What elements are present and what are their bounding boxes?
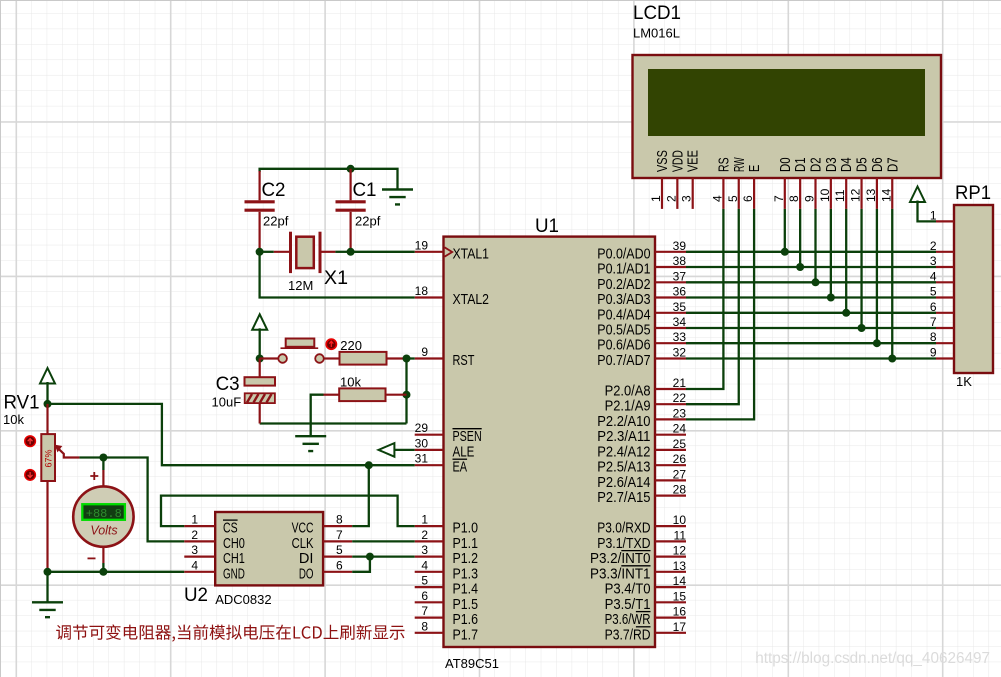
wire LCD RW to P2.1 xyxy=(686,209,739,404)
LCD1 pin 1 (VSS) stub xyxy=(661,178,663,209)
junction D6/P0.6 xyxy=(873,339,881,347)
junction 10k right xyxy=(403,391,411,399)
resistor 10k right pin xyxy=(386,394,407,396)
svg-text:RV1: RV1 xyxy=(4,393,40,414)
svg-text:22: 22 xyxy=(673,391,687,405)
svg-text:1: 1 xyxy=(649,195,663,202)
svg-text:EA: EA xyxy=(453,460,468,476)
svg-text:P0.6/AD6: P0.6/AD6 xyxy=(597,338,650,354)
svg-text:39: 39 xyxy=(673,239,687,253)
svg-text:P3.1/TXD: P3.1/TXD xyxy=(597,536,650,552)
svg-text:CH0: CH0 xyxy=(223,536,245,552)
wire LCD D5 vertical xyxy=(860,209,862,328)
wire voltmeter top xyxy=(102,458,104,471)
U1 P3.7/RD overline xyxy=(636,626,651,628)
U1 pin 3 (P1.2) stub xyxy=(415,555,444,557)
svg-text:VEE: VEE xyxy=(686,150,702,172)
svg-text:P0.0/AD0: P0.0/AD0 xyxy=(597,246,650,262)
wire LCD E to P2.2 xyxy=(686,209,754,420)
voltmeter plus mark xyxy=(90,472,98,480)
svg-text:DO: DO xyxy=(299,566,314,582)
wire CLK to P1.1 xyxy=(352,540,415,542)
svg-text:5: 5 xyxy=(336,543,343,557)
wire wiper to CH0 xyxy=(79,458,184,542)
resistor 10k left pin xyxy=(324,394,340,396)
wire LCD D3 vertical xyxy=(830,209,832,298)
svg-text:D3: D3 xyxy=(824,157,840,172)
ground (crystal) xyxy=(382,190,413,205)
svg-text:23: 23 xyxy=(673,406,687,420)
LCD1 pin 7 (D0) stub xyxy=(784,178,786,209)
LCD1 pin 4 (RS) stub xyxy=(722,178,724,209)
svg-text:D0: D0 xyxy=(778,157,794,172)
U1 XTAL1 clock mark xyxy=(445,247,453,256)
svg-text:DI: DI xyxy=(299,551,314,567)
LCD1 pin 2 (VDD) stub xyxy=(676,178,678,209)
U1 pin 5 (P1.4) stub xyxy=(415,586,444,588)
svg-text:RP1: RP1 xyxy=(955,183,991,204)
svg-text:P2.3/A11: P2.3/A11 xyxy=(597,429,650,445)
LCD1 pin 14 (D7) stub xyxy=(891,178,893,209)
voltmeter top pin xyxy=(102,470,104,487)
svg-text:8: 8 xyxy=(421,619,428,633)
wire C2 to XTAL2 xyxy=(260,252,415,298)
U1 pin 31 (EA) stub xyxy=(415,464,444,466)
wire LCD D0 vertical xyxy=(784,209,786,252)
svg-text:10: 10 xyxy=(818,188,832,202)
svg-text:6: 6 xyxy=(336,558,343,572)
U1 pin 24 (P2.3/A11) stub xyxy=(655,434,686,436)
switch contact right xyxy=(315,354,324,363)
svg-text:P3.2/INT0: P3.2/INT0 xyxy=(590,551,651,567)
switch pin left xyxy=(260,357,279,359)
svg-text:37: 37 xyxy=(673,269,687,283)
svg-text:3: 3 xyxy=(680,195,694,202)
wire XTAL1 row xyxy=(351,251,415,253)
RP1 pin 6 stub xyxy=(936,312,954,314)
U1 pin 6 (P1.5) stub xyxy=(415,601,444,603)
junction RV1 top xyxy=(44,400,52,408)
wire P0.3 bus row xyxy=(686,296,936,298)
U1 pin 26 (P2.5/A13) stub xyxy=(655,464,686,466)
wire P0.1 bus row xyxy=(686,266,936,268)
wire 10k to ground xyxy=(311,395,324,437)
LCD display LCD1 xyxy=(633,55,942,178)
wire ground net xyxy=(48,571,185,573)
U1 pin 1 (P1.0) stub xyxy=(415,525,444,527)
switch button bar xyxy=(286,339,315,347)
svg-text:RW: RW xyxy=(732,157,748,172)
RP1 pin 7 stub xyxy=(936,327,954,329)
LCD1 pin 10 (D3) stub xyxy=(830,178,832,209)
svg-text:38: 38 xyxy=(673,254,687,268)
U2 pin 8 (VCC) stub xyxy=(323,525,352,527)
svg-text:P2.1/A9: P2.1/A9 xyxy=(605,399,651,415)
LCD1 pin 11 (D4) stub xyxy=(845,178,847,209)
switch contact left xyxy=(278,354,287,363)
svg-text:6: 6 xyxy=(741,195,755,202)
svg-text:LCD1: LCD1 xyxy=(633,3,681,24)
svg-text:4: 4 xyxy=(710,195,724,202)
voltmeter display xyxy=(82,504,125,520)
capacitor C3 top pin xyxy=(259,359,261,378)
wire CS to P1.0 xyxy=(161,496,415,526)
junction C1/XTAL1 xyxy=(347,248,355,256)
U1 pin 2 (P1.1) stub xyxy=(415,540,444,542)
junction C2/XTAL1 node xyxy=(256,248,264,256)
svg-text:P2.2/A10: P2.2/A10 xyxy=(597,414,650,430)
svg-text:ALE: ALE xyxy=(453,444,475,460)
U1 pin 39 (P0.0/AD0) stub xyxy=(655,251,686,253)
svg-text:VCC: VCC xyxy=(292,521,314,537)
junction D0/P0.0 xyxy=(781,248,789,256)
U1 pin 29 (PSEN) stub xyxy=(415,434,444,436)
wire LCD D4 vertical xyxy=(845,209,847,313)
svg-text:26: 26 xyxy=(673,452,687,466)
svg-text:9: 9 xyxy=(803,195,817,202)
U1 pin 32 (P0.7/AD7) stub xyxy=(655,357,686,359)
svg-text:P1.7: P1.7 xyxy=(453,627,479,643)
svg-text:36: 36 xyxy=(673,285,687,299)
svg-text:P0.2/AD2: P0.2/AD2 xyxy=(597,277,650,293)
svg-text:P1.3: P1.3 xyxy=(453,566,479,582)
svg-text:CH1: CH1 xyxy=(223,551,245,567)
junction wiper/voltmeter xyxy=(99,454,107,462)
U2 pin 6 (DO) stub xyxy=(323,571,352,573)
svg-text:31: 31 xyxy=(415,452,429,466)
U1 pin 16 (P3.6/WR) stub xyxy=(655,616,686,618)
svg-text:P2.7/A15: P2.7/A15 xyxy=(597,490,650,506)
crystal X1 right electrode xyxy=(319,232,322,273)
LCD1 pin 12 (D5) stub xyxy=(860,178,862,209)
junction RV1 bottom xyxy=(44,568,52,576)
svg-text:D7: D7 xyxy=(885,157,901,172)
svg-text:VDD: VDD xyxy=(670,150,686,172)
wire RV1 to ground symbol xyxy=(46,571,48,602)
U1 pin 4 (P1.3) stub xyxy=(415,571,444,573)
power terminal VCC (RV1) xyxy=(40,368,55,384)
wire LCD D1 vertical xyxy=(799,209,801,267)
power terminal VCC (RP1) xyxy=(910,187,925,203)
U1 pin 18 (XTAL2) stub xyxy=(415,296,444,298)
svg-text:24: 24 xyxy=(673,422,687,436)
svg-text:13: 13 xyxy=(864,188,878,202)
switch actuator button xyxy=(326,339,336,349)
wire P0.2 bus row xyxy=(686,281,936,283)
svg-text:8: 8 xyxy=(787,195,801,202)
voltmeter minus mark xyxy=(88,557,96,559)
ground (reset) xyxy=(295,436,326,451)
wire C2-C1-ground top net xyxy=(260,169,398,190)
switch bar underline xyxy=(281,347,319,349)
svg-text:LM016L: LM016L xyxy=(633,26,680,41)
LCD1 screen xyxy=(648,69,925,136)
potentiometer RV1 body xyxy=(41,434,55,481)
svg-text:P2.4/A12: P2.4/A12 xyxy=(597,444,650,460)
wire RV1/EA VCC net xyxy=(48,404,415,465)
svg-text:34: 34 xyxy=(673,315,687,329)
wire LCD D2 vertical xyxy=(814,209,816,282)
U1 pin 21 (P2.0/A8) stub xyxy=(655,388,686,390)
svg-text:P0.3/AD3: P0.3/AD3 xyxy=(597,292,650,308)
junction D1/P0.1 xyxy=(796,263,804,271)
RP1 pin 8 stub xyxy=(936,342,954,344)
svg-text:P0.4/AD4: P0.4/AD4 xyxy=(597,307,650,323)
junction reset VCC node xyxy=(256,355,264,363)
svg-text:U2: U2 xyxy=(184,585,208,606)
wire P0.6 bus row xyxy=(686,342,936,344)
resistor R 10k body xyxy=(339,388,385,401)
svg-text:17: 17 xyxy=(673,620,687,634)
svg-text:8: 8 xyxy=(336,513,343,527)
svg-text:3: 3 xyxy=(191,543,198,557)
svg-text:P0.5/AD5: P0.5/AD5 xyxy=(597,323,650,339)
svg-text:7: 7 xyxy=(421,604,428,618)
svg-text:Volts: Volts xyxy=(90,524,117,538)
U1 EA overline xyxy=(453,458,468,460)
svg-text:D5: D5 xyxy=(855,157,871,172)
junction D4/P0.4 xyxy=(842,309,850,317)
crystal X1 body xyxy=(296,237,314,268)
svg-text:AT89C51: AT89C51 xyxy=(445,656,499,671)
svg-text:RST: RST xyxy=(453,353,475,369)
svg-text:E: E xyxy=(747,164,763,172)
wire RST node to pin9 xyxy=(407,357,415,359)
svg-text:12: 12 xyxy=(673,544,687,558)
svg-text:P3.0/RXD: P3.0/RXD xyxy=(597,521,650,537)
svg-text:25: 25 xyxy=(673,437,687,451)
ALE arrow head xyxy=(379,443,395,457)
svg-text:1: 1 xyxy=(191,513,198,527)
svg-text:ADC0832: ADC0832 xyxy=(215,592,271,607)
resistor 220 right pin xyxy=(387,357,407,359)
U1 pin 15 (P3.5/T1) stub xyxy=(655,601,686,603)
U1 pin 9 (RST) stub xyxy=(415,357,444,359)
wire LCD D7 vertical xyxy=(891,209,893,359)
wire X1 to C1 node xyxy=(335,251,350,253)
svg-text:35: 35 xyxy=(673,300,687,314)
svg-text:6: 6 xyxy=(421,589,428,603)
U1 pin 28 (P2.7/A15) stub xyxy=(655,495,686,497)
LCD1 pin 6 (E) stub xyxy=(753,178,755,209)
resistor pack RP1 xyxy=(954,205,993,373)
U1 pin 38 (P0.1/AD1) stub xyxy=(655,266,686,268)
LCD1 pin 9 (D2) stub xyxy=(814,178,816,209)
svg-text:XTAL1: XTAL1 xyxy=(453,246,490,262)
wire XTAL1 node xyxy=(260,251,274,253)
svg-text:P2.5/A13: P2.5/A13 xyxy=(597,460,650,476)
LCD1 pin 3 (VEE) stub xyxy=(692,178,694,209)
wire RST vertical xyxy=(405,359,407,424)
U1 pin 36 (P0.3/AD3) stub xyxy=(655,296,686,298)
U1 P3.6/WR overline xyxy=(636,611,651,613)
RP1 pin 9 stub xyxy=(936,357,954,359)
svg-text:67%: 67% xyxy=(43,449,53,467)
junction D7/P0.7 xyxy=(888,355,896,363)
ground (RV1) xyxy=(32,602,63,617)
wire DO to DI xyxy=(352,557,370,572)
svg-text:9: 9 xyxy=(421,345,428,359)
svg-text:P3.6/WR: P3.6/WR xyxy=(605,612,651,628)
svg-text:14: 14 xyxy=(673,574,687,588)
svg-text:11: 11 xyxy=(674,528,687,542)
svg-text:P1.6: P1.6 xyxy=(453,612,479,628)
junction D2/P0.2 xyxy=(812,278,820,286)
svg-text:P1.0: P1.0 xyxy=(453,521,479,537)
wire P0.7 bus row xyxy=(686,357,936,359)
svg-text:P3.7/RD: P3.7/RD xyxy=(605,627,651,643)
svg-text:15: 15 xyxy=(673,589,687,603)
svg-text:D4: D4 xyxy=(839,157,855,172)
RV1 up button xyxy=(25,436,36,447)
U1 pin 33 (P0.6/AD6) stub xyxy=(655,342,686,344)
svg-text:CLK: CLK xyxy=(292,536,314,552)
svg-text:P2.0/A8: P2.0/A8 xyxy=(605,384,651,400)
svg-text:22pf: 22pf xyxy=(263,214,289,229)
svg-text:P3.5/T1: P3.5/T1 xyxy=(605,597,651,613)
svg-text:P3.4/T0: P3.4/T0 xyxy=(605,582,651,598)
svg-text:2: 2 xyxy=(664,195,678,202)
capacitor C2 bottom pin xyxy=(259,212,261,252)
svg-text:5: 5 xyxy=(726,195,740,202)
svg-text:11: 11 xyxy=(833,189,847,202)
U2 CS overline xyxy=(223,519,238,521)
U1 pin 37 (P0.2/AD2) stub xyxy=(655,281,686,283)
microcontroller U1 body xyxy=(444,237,656,647)
capacitor C2 plates xyxy=(245,202,275,210)
LCD1 pin 5 (RW) stub xyxy=(738,178,740,209)
RP1 pin 1 stub xyxy=(936,220,954,222)
wire P0.4 bus row xyxy=(686,312,936,314)
U2 pin 3 (CH1) stub xyxy=(184,555,215,557)
U1 pin 8 (P1.7) stub xyxy=(415,632,444,634)
svg-text:13: 13 xyxy=(673,559,687,573)
U2 pin 2 (CH0) stub xyxy=(184,540,215,542)
U1 pin 10 (P3.0/RXD) stub xyxy=(655,525,686,527)
LCD1 pin 13 (D6) stub xyxy=(876,178,878,209)
svg-text:P3.3/INT1: P3.3/INT1 xyxy=(590,566,651,582)
U1 P3.2/INT0 overline xyxy=(621,550,650,552)
U1 pin 17 (P3.7/RD) stub xyxy=(655,632,686,634)
svg-text:28: 28 xyxy=(673,483,687,497)
svg-text:+88.8: +88.8 xyxy=(86,507,122,521)
junction RST node xyxy=(403,355,411,363)
svg-text:C1: C1 xyxy=(353,180,377,201)
svg-text:12M: 12M xyxy=(288,278,313,293)
svg-text:C3: C3 xyxy=(216,374,240,395)
svg-text:P1.4: P1.4 xyxy=(453,582,479,598)
caption text (Chinese) xyxy=(56,624,404,641)
svg-text:32: 32 xyxy=(673,346,687,360)
capacitor C3 plate top xyxy=(245,377,276,385)
voltmeter bottom pin xyxy=(102,547,104,563)
svg-text:22pf: 22pf xyxy=(355,214,381,229)
svg-text:https://blog.csdn.net/qq_40626: https://blog.csdn.net/qq_40626497 xyxy=(755,650,990,667)
svg-text:C2: C2 xyxy=(262,180,286,201)
wire U2 VCC to EA net xyxy=(352,465,369,526)
U1 P3.3/INT1 overline xyxy=(621,565,650,567)
svg-text:D1: D1 xyxy=(793,157,809,172)
U2 pin 7 (CLK) stub xyxy=(323,540,352,542)
crystal X1 left electrode xyxy=(289,232,292,273)
junction EA/U2 VCC xyxy=(365,461,373,469)
potentiometer RV1 bottom pin xyxy=(46,481,48,571)
svg-text:P1.5: P1.5 xyxy=(453,597,479,613)
svg-text:7: 7 xyxy=(772,195,786,202)
svg-text:16: 16 xyxy=(673,605,687,619)
RP1 pin 2 stub xyxy=(936,251,954,253)
wire voltmeter to ground net xyxy=(102,563,104,571)
svg-text:X1: X1 xyxy=(324,268,348,289)
svg-text:P0.1/AD1: P0.1/AD1 xyxy=(597,262,650,278)
svg-text:P1.1: P1.1 xyxy=(453,536,479,552)
wire arrow to RV1 top xyxy=(46,382,48,404)
wire VCC to RP1 pin1 xyxy=(918,201,937,222)
svg-text:21: 21 xyxy=(673,376,687,390)
RV1 wiper arrow xyxy=(55,445,63,453)
junction DI/DO xyxy=(366,553,374,561)
svg-text:33: 33 xyxy=(673,330,687,344)
switch pin right xyxy=(324,357,340,359)
svg-text:19: 19 xyxy=(415,238,429,252)
svg-text:10: 10 xyxy=(673,513,687,527)
capacitor C3 plate hatched xyxy=(245,393,275,403)
svg-text:10uF: 10uF xyxy=(212,395,242,410)
svg-text:D6: D6 xyxy=(870,157,886,172)
capacitor C1 bottom pin xyxy=(350,212,352,252)
svg-text:VSS: VSS xyxy=(655,150,671,172)
svg-text:12: 12 xyxy=(849,188,863,202)
svg-text:27: 27 xyxy=(673,467,687,481)
svg-text:4: 4 xyxy=(191,558,198,572)
potentiometer RV1 top pin xyxy=(46,404,48,434)
U1 pin 13 (P3.3/INT1) stub xyxy=(655,571,686,573)
U1 PSEN overline xyxy=(453,428,482,430)
wire VCC arrow to node xyxy=(259,328,261,358)
U2 pin 4 (GND) stub xyxy=(184,571,215,573)
U1 pin 25 (P2.4/A12) stub xyxy=(655,449,686,451)
junction C1 top xyxy=(347,165,355,173)
RV1 down button xyxy=(25,470,36,481)
ALE terminal arrow xyxy=(383,449,415,451)
resistor R 220 body xyxy=(340,352,387,365)
svg-text:PSEN: PSEN xyxy=(453,429,482,445)
svg-text:1: 1 xyxy=(421,513,428,527)
U1 pin 12 (P3.2/INT0) stub xyxy=(655,555,686,557)
U1 pin 34 (P0.5/AD5) stub xyxy=(655,327,686,329)
LCD1 pin 8 (D1) stub xyxy=(799,178,801,209)
svg-text:7: 7 xyxy=(336,528,343,542)
svg-text:CS: CS xyxy=(223,521,238,537)
U2 pin 1 (CS) stub xyxy=(184,525,215,527)
U1 pin 35 (P0.4/AD4) stub xyxy=(655,312,686,314)
svg-text:1K: 1K xyxy=(956,374,972,389)
capacitor C1 plates xyxy=(336,202,366,210)
svg-text:2: 2 xyxy=(421,528,428,542)
svg-text:P0.7/AD7: P0.7/AD7 xyxy=(597,353,650,369)
svg-text:GND: GND xyxy=(223,566,245,582)
wire P0.5 bus row xyxy=(686,327,936,329)
RP1 pin 4 stub xyxy=(936,281,954,283)
RP1 pin 3 stub xyxy=(936,266,954,268)
U1 pin 23 (P2.2/A10) stub xyxy=(655,418,686,420)
power terminal VCC (reset) xyxy=(252,314,267,330)
svg-text:P1.2: P1.2 xyxy=(453,551,479,567)
svg-text:5: 5 xyxy=(421,574,428,588)
svg-text:30: 30 xyxy=(415,436,429,450)
svg-text:2: 2 xyxy=(191,528,198,542)
svg-text:3: 3 xyxy=(421,543,428,557)
